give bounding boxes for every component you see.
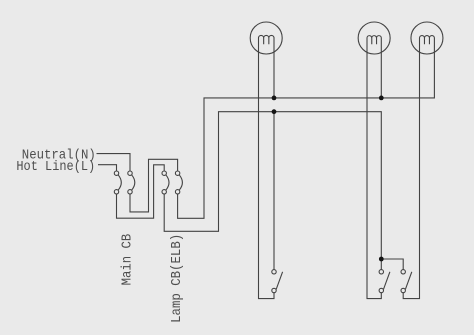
wire neutral label lead-in [97, 154, 131, 171]
breaker Lamp CB pole 1 [162, 171, 169, 194]
wire Main CB pole2 out to Lamp CB pole2 in [130, 159, 178, 212]
wire lamp2 left lead to switch S2 return [367, 55, 381, 299]
switch S2 [379, 270, 390, 293]
svg-text:Hot Line(L): Hot Line(L) [16, 159, 95, 175]
wire switch S1 feed from hot bus [273, 112, 275, 270]
label Neutral(N) [22, 148, 96, 164]
breaker Lamp CB pole 2 [175, 171, 182, 194]
label Lamp CB(ELB) [169, 234, 185, 323]
lamp LP2 [358, 22, 390, 55]
lamp LP1 [250, 22, 282, 55]
wire hot label lead-in [98, 165, 117, 171]
lamp LP3 [411, 22, 443, 55]
switch S3 [401, 270, 412, 293]
wire lamp1 right lead to neutral bus [273, 55, 275, 98]
wire Main CB pole1 out to Lamp CB pole1 in [117, 165, 165, 218]
wire neutral bus: Lamp CB pole2 out to lamp leads [178, 55, 435, 218]
wire hot bus: Lamp CB pole1 out to switch pair feed [164, 112, 381, 270]
svg-text:Main CB: Main CB [119, 234, 135, 286]
label Hot Line(L) [16, 159, 95, 175]
wire switch S3 return to lamp3 left lead [403, 55, 419, 299]
breaker Main CB pole 1 [114, 171, 121, 194]
junction: lamp2 right lead on neutral bus [379, 96, 384, 101]
junction: switch S1 feed on hot bus [272, 109, 277, 114]
svg-text:Lamp CB(ELB): Lamp CB(ELB) [169, 234, 185, 323]
switch S1 [272, 270, 283, 293]
wire switch S3 feed branch [381, 259, 403, 270]
junction: lamp1 right lead on neutral bus [272, 96, 277, 101]
wire lamp2 right lead to neutral bus [380, 55, 382, 98]
wire lamp1 left lead to switch S1 return [259, 55, 275, 299]
label Main CB [119, 234, 135, 286]
breaker Main CB pole 2 [128, 171, 135, 194]
junction: switch pair feed split [379, 257, 384, 262]
